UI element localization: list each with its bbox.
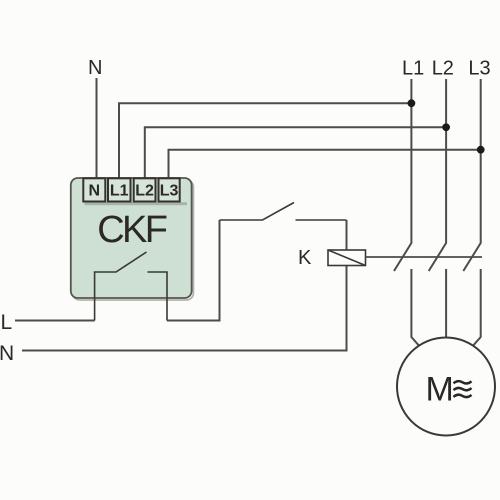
svg-text:L2: L2 <box>135 183 154 200</box>
svg-text:L2: L2 <box>432 58 454 80</box>
svg-text:L1: L1 <box>110 183 129 200</box>
svg-text:N: N <box>0 342 14 365</box>
svg-text:N: N <box>89 183 101 200</box>
svg-text:N: N <box>88 57 102 79</box>
svg-text:K: K <box>298 247 312 269</box>
svg-text:L3: L3 <box>160 183 179 200</box>
svg-text:CKF: CKF <box>97 209 167 251</box>
svg-text:L1: L1 <box>402 58 424 80</box>
svg-text:L: L <box>1 311 13 334</box>
svg-text:L3: L3 <box>468 58 490 80</box>
svg-text:M: M <box>426 371 454 409</box>
